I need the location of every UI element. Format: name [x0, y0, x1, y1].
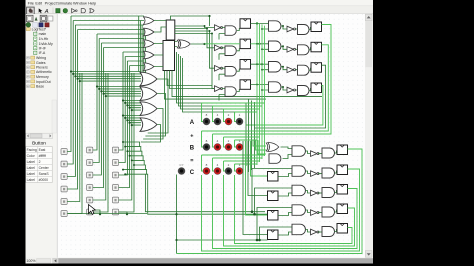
row 1 AND gate B: [256, 21, 281, 32]
svg-text:Input/Out: Input/Out: [36, 80, 51, 84]
row 4 NOT gate: [215, 86, 223, 92]
svg-text:LogiTest*: LogiTest*: [32, 28, 47, 32]
row 1 NOT gate: [215, 25, 223, 31]
row 3 AND gate A: [219, 67, 236, 81]
carry row 1 XOR gate: [266, 143, 279, 152]
row 2 wire from flip-flop A to bundle: [205, 43, 261, 45]
bright bundle into carry rows: [253, 140, 266, 154]
row 4 feedback wrap wire: [246, 86, 323, 126]
row 1 feedback wrap wire: [249, 25, 332, 135]
row 2 AND gate A: [219, 46, 236, 60]
carry row 4 AND gate B: [292, 205, 305, 216]
svg-text:Memory: Memory: [36, 75, 49, 79]
carry row 5 AND gate C: [318, 227, 335, 237]
svg-text:Edit: Edit: [35, 0, 43, 5]
row 2 flip-flop A: [237, 39, 251, 51]
mouse cursor: [89, 205, 96, 215]
row 3 flip-flop A: [237, 60, 251, 72]
svg-text:Label: Label: [27, 172, 36, 176]
svg-text:Base: Base: [36, 85, 44, 89]
row 3 output flip-flop: [309, 63, 322, 72]
svg-text:100%: 100%: [26, 259, 36, 263]
svg-text:=: =: [190, 158, 193, 164]
carry row 1 AND gate C: [318, 148, 335, 158]
row 2 feedback wrap wire: [252, 45, 329, 131]
carry row 1 wires into AND B: [281, 147, 293, 159]
row 1 AND gate A: [219, 26, 236, 40]
svg-text:Button: Button: [32, 141, 46, 147]
svg-text:+: +: [190, 134, 193, 140]
carry row 4 AND gate C: [318, 207, 335, 217]
carry row 3 input flip-flop: [268, 191, 293, 201]
carry row 1 AND gate B: [292, 146, 305, 157]
label equals: [190, 158, 193, 164]
feedback wires from OR outputs down to staircase junction: [141, 79, 168, 142]
row 1 AND gate C: [296, 25, 310, 35]
carry row 4 output flip-flop: [335, 204, 348, 214]
svg-text:main: main: [39, 32, 47, 36]
row 1 NOT gate B: [281, 25, 296, 32]
svg-text:2: 2: [39, 160, 41, 164]
carry row 3 AND gate B: [292, 185, 305, 196]
wires from register U2 right side down to display frames: [177, 52, 235, 112]
OR gate column: five 2-input OR gates G1-G5: [144, 17, 155, 71]
dark feed wires from bottom bus up into carry rows: [251, 169, 292, 242]
svg-text:SansS: SansS: [39, 172, 50, 176]
carry row 3 NOT gate: [306, 190, 320, 196]
carry row 4 input flip-flop: [268, 211, 293, 221]
svg-text:1h-Hb: 1h-Hb: [39, 37, 49, 41]
row 3 NOT gate: [215, 66, 223, 72]
wire elbows from register U1 to NOT row drivers: [175, 25, 214, 89]
carry row 2 AND gate C: [318, 168, 335, 178]
svg-text:1hAb-My: 1hAb-My: [39, 42, 53, 46]
row 3 AND gate B: [256, 62, 281, 73]
svg-text:C: C: [190, 170, 195, 176]
carry row 3 output flip-flop: [335, 185, 348, 195]
carry row 5 input flip-flop: [268, 230, 293, 240]
row 2 AND gate B: [256, 41, 281, 52]
wire frame feeding display row C: [202, 155, 265, 171]
svg-text:IF-A: IF-A: [39, 51, 46, 55]
four 5-input OR gates G7-G10: [140, 72, 157, 131]
svg-text:Arithmetic: Arithmetic: [36, 70, 52, 74]
junction wire bundles feeding the four multi-input OR gates: [70, 70, 141, 126]
svg-text:B: B: [190, 146, 195, 152]
row 4 flip-flop A: [237, 80, 251, 92]
long wires from register U2 to right-hand logic: [165, 71, 323, 100]
row 3 feedback wrap wire: [255, 65, 326, 128]
svg-text:Simulate: Simulate: [57, 0, 72, 5]
display row B LEDs (value 7): [203, 139, 243, 151]
carry row 2 output flip-flop: [335, 165, 348, 175]
row 2 AND gate C: [296, 45, 310, 55]
label plus: [190, 134, 193, 140]
vertical driver bundle for sum rows: [246, 22, 265, 172]
wire risers from buttons up to staircase bus: [67, 16, 134, 214]
bottom feedback bus wrapping from carry outputs to display row C: [177, 149, 363, 254]
wire staircase bus from input buttons to OR gate column: [71, 16, 144, 66]
carry row 1 AND gate A: [269, 154, 281, 164]
carry row 2 AND gate B: [292, 166, 305, 177]
label A: [190, 120, 195, 126]
svg-text:File: File: [28, 0, 34, 5]
svg-text:Project: Project: [45, 0, 58, 5]
row 4 AND gate C: [296, 86, 310, 96]
svg-text:Label: Label: [27, 178, 36, 182]
carry row 1 NOT gate: [306, 151, 320, 157]
row 3 AND gate C: [296, 65, 310, 75]
carry row 3 AND gate C: [318, 188, 335, 198]
carry row 4 NOT gate: [306, 210, 320, 216]
row 2 NOT gate: [215, 45, 223, 51]
svg-text:A: A: [190, 120, 195, 126]
svg-text:Window: Window: [73, 0, 87, 5]
wires from OR gates G1-G5 into registers: [154, 21, 166, 67]
svg-text:Color: Color: [27, 154, 36, 158]
wire from register U1 top to row driver bundle: [171, 15, 211, 26]
row 3 wire from flip-flop A to bundle: [251, 63, 264, 65]
wire frame feeding display row A: [202, 103, 265, 122]
svg-text:#0000: #0000: [39, 178, 49, 182]
carry row 1 output flip-flop: [335, 145, 348, 155]
wire frame feeding display row B: [202, 131, 265, 147]
register U1: [166, 20, 175, 40]
display row A LEDs (value 2): [203, 113, 243, 125]
svg-text:Center: Center: [39, 166, 50, 170]
wires from bottom buttons joining carry bus: [68, 175, 268, 254]
row 4 wire from flip-flop A to bundle: [251, 84, 257, 86]
wire drops from staircase into OR input bundles: [139, 16, 146, 81]
svg-text:Help: Help: [88, 0, 96, 5]
OR gate U3: [175, 40, 206, 49]
carry row 2 input flip-flop: [268, 172, 293, 182]
svg-text:Wiring: Wiring: [36, 56, 46, 60]
row 2 NOT gate B: [281, 45, 296, 52]
row 1 output flip-flop: [309, 22, 322, 32]
label C: [190, 170, 195, 176]
svg-text:A: A: [44, 9, 49, 15]
svg-text:East: East: [39, 148, 46, 152]
row 3 NOT gate B: [281, 66, 296, 73]
row 4 AND gate B: [256, 82, 281, 93]
svg-text:CY: CY: [180, 163, 184, 167]
row 4 AND gate A: [219, 87, 236, 101]
register U2: [163, 41, 175, 71]
svg-text:IF-IF: IF-IF: [39, 47, 47, 51]
carry row 5 AND gate B: [292, 224, 305, 235]
row 1 flip-flop A: [237, 19, 251, 31]
input buttons bank (3 columns of 6 push buttons): [61, 147, 119, 216]
carry row 2 NOT gate: [306, 171, 320, 177]
carry row 5 NOT gate: [306, 229, 320, 235]
svg-text:Facing: Facing: [27, 148, 37, 152]
svg-text:Plexers: Plexers: [36, 66, 48, 70]
svg-text:Label: Label: [27, 160, 36, 164]
staircase wires descending from button area to carry bus: [122, 141, 268, 214]
display row C LEDs (carry and sum bits): [178, 163, 243, 175]
svg-text:Gates: Gates: [36, 61, 46, 65]
row 4 output flip-flop: [309, 83, 322, 93]
svg-text:Label: Label: [27, 166, 36, 170]
svg-text:#ffffff: #ffffff: [39, 154, 46, 158]
row 4 NOT gate B: [281, 86, 296, 93]
label B: [190, 146, 195, 152]
carry row 5 output flip-flop: [335, 224, 348, 234]
row 1 wire from flip-flop A to bundle: [251, 22, 259, 24]
elbow wires into carry row flip-flops: [243, 141, 268, 235]
row 2 output flip-flop: [309, 42, 322, 52]
